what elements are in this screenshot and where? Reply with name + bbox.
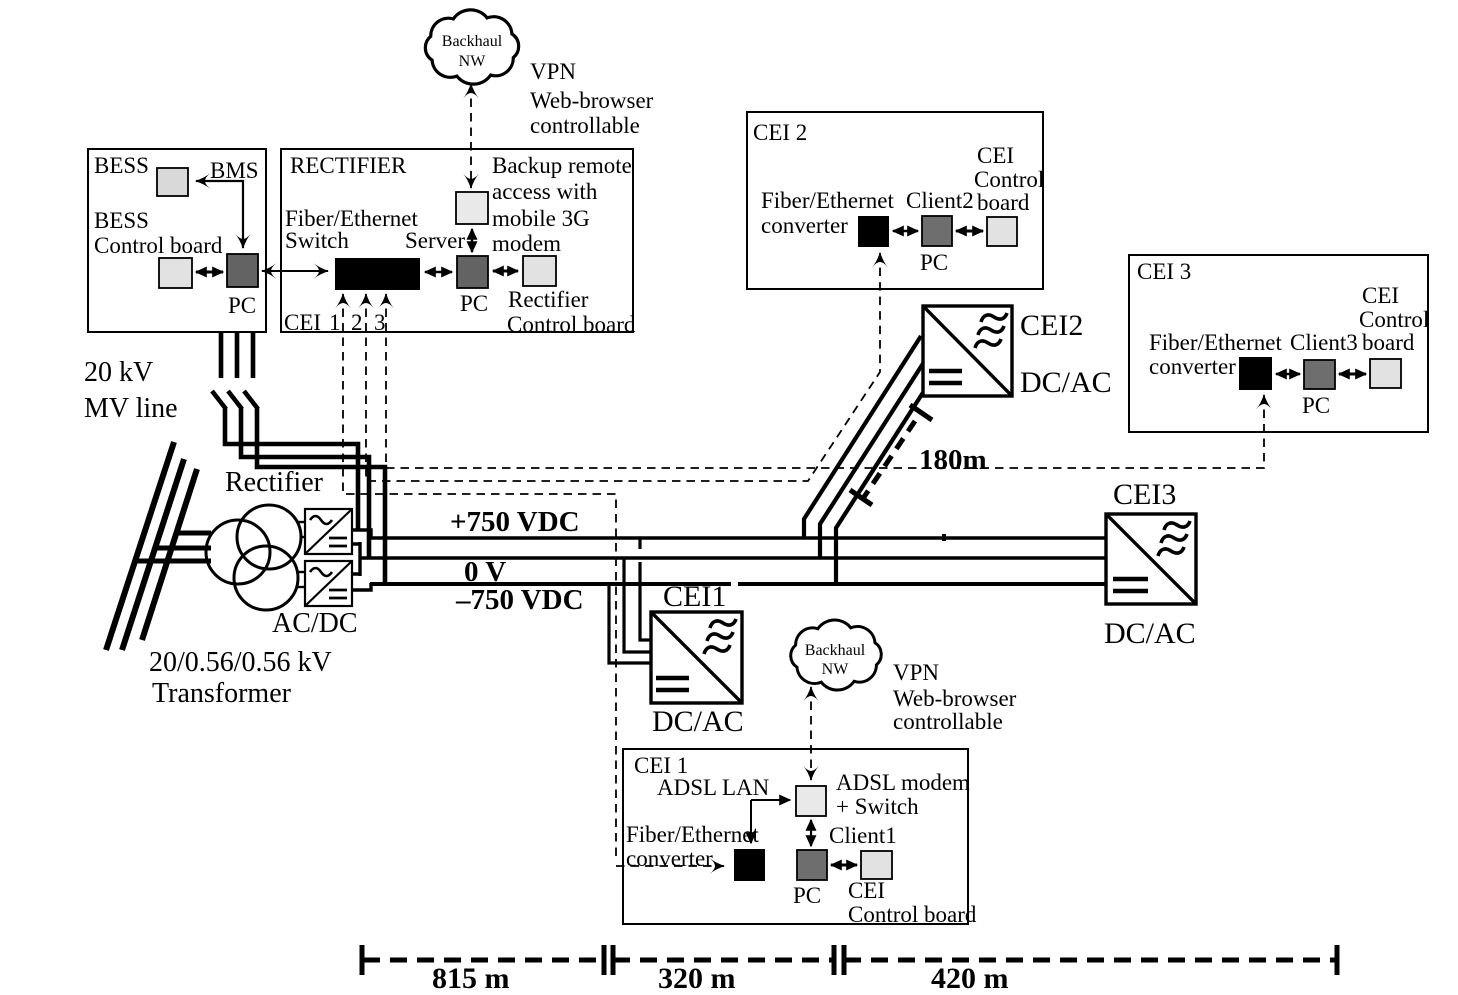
- svg-text:board: board: [977, 190, 1030, 215]
- svg-text:20 kV: 20 kV: [84, 357, 153, 388]
- arrow control board - PC: [196, 271, 223, 274]
- converter CEI1 body: [651, 612, 742, 703]
- bus -750 VDC (right part): [738, 582, 1107, 586]
- svg-text:Control board: Control board: [848, 902, 977, 927]
- measure 420 m line: [844, 958, 1337, 963]
- svg-text:controllable: controllable: [530, 113, 640, 138]
- svg-text:BESS: BESS: [94, 208, 149, 233]
- transformer winding secondary 1: [237, 505, 301, 569]
- MV line conductor 2: [122, 459, 184, 650]
- svg-text:MV line: MV line: [84, 393, 178, 424]
- server PC square: [457, 256, 488, 288]
- svg-text:DC/AC: DC/AC: [1020, 366, 1112, 399]
- MV tap stub 1: [174, 531, 211, 536]
- AC/DC converter 1 body: [305, 509, 352, 554]
- ADSL modem square: [796, 786, 826, 816]
- svg-text:Transformer: Transformer: [152, 678, 292, 709]
- AC/DC converter 2 body: [305, 561, 352, 606]
- BESS control board square: [159, 258, 192, 288]
- svg-text:board: board: [1362, 330, 1415, 355]
- 3G modem square: [456, 192, 488, 224]
- bus 0 V: [359, 556, 1107, 559]
- CEI2 feeder wire -: [836, 391, 924, 584]
- fiber/ethernet switch (black): [335, 258, 420, 290]
- arrow server - rectifier control board: [493, 270, 518, 273]
- transformer winding primary: [206, 520, 270, 584]
- arrow BESS PC - fiber switch: [262, 270, 328, 272]
- svg-text:AC/DC: AC/DC: [272, 608, 358, 639]
- junction tick on +750 bus: [942, 534, 946, 541]
- arrow client3 - board: [1339, 373, 1366, 376]
- svg-text:+ Switch: + Switch: [836, 794, 919, 819]
- CEI1 tap 0V: [624, 559, 652, 652]
- svg-text:converter: converter: [1149, 354, 1236, 379]
- fiber converter square (CEI3): [1239, 357, 1272, 390]
- arrow ADSL LAN down to fiber converter: [750, 800, 752, 843]
- comm line switch port1 to CEI1: [343, 294, 724, 866]
- svg-text:controllable: controllable: [893, 709, 1003, 734]
- svg-text:–750 VDC: –750 VDC: [455, 584, 584, 616]
- svg-text:PC: PC: [920, 250, 948, 275]
- svg-text:Switch: Switch: [285, 228, 349, 253]
- arrow modem - client1: [810, 820, 812, 846]
- cloud Backhaul NW (middle): [791, 620, 882, 690]
- rectifier control board square: [523, 256, 556, 286]
- svg-text:CEI: CEI: [977, 143, 1014, 168]
- bus -750 VDC (left part): [370, 582, 731, 586]
- dashed link cloud2 - ADSL modem: [810, 687, 812, 780]
- svg-text:Client3: Client3: [1290, 330, 1358, 355]
- svg-text:Backhaul: Backhaul: [805, 642, 866, 659]
- measure 180m tick bottom: [850, 490, 872, 505]
- svg-text:CEI 3: CEI 3: [1137, 259, 1191, 284]
- svg-text:+750 VDC: +750 VDC: [450, 506, 580, 538]
- svg-text:mobile 3G: mobile 3G: [492, 206, 590, 231]
- Client3 PC square: [1304, 360, 1335, 389]
- svg-text:Fiber/Ethernet: Fiber/Ethernet: [761, 188, 894, 213]
- CEI 1 enclosure box: [623, 749, 968, 924]
- battery module square: [157, 168, 188, 196]
- svg-text:815 m: 815 m: [432, 962, 510, 995]
- PC square (BESS): [227, 254, 258, 287]
- arrow server - modem: [471, 229, 473, 252]
- comm line switch port2 to CEI2: [366, 253, 880, 481]
- CEI control board square (CEI3): [1370, 359, 1401, 388]
- svg-text:Control: Control: [974, 167, 1044, 192]
- svg-text:VPN: VPN: [530, 59, 576, 84]
- svg-text:NW: NW: [822, 661, 850, 678]
- measure 180m tick top: [910, 405, 932, 420]
- svg-text:converter: converter: [761, 213, 848, 238]
- CEI2 feeder wire +: [804, 336, 921, 538]
- CEI1 tap -750: [609, 585, 652, 663]
- svg-text:Web-browser: Web-browser: [530, 88, 654, 113]
- Client1 PC square: [797, 850, 827, 880]
- CEI 3 enclosure box: [1129, 255, 1428, 432]
- svg-text:RECTIFIER: RECTIFIER: [290, 153, 407, 178]
- MV tap stub 3: [134, 559, 211, 564]
- svg-text:Control board: Control board: [94, 233, 223, 258]
- svg-text:Backup remote: Backup remote: [492, 153, 632, 178]
- MV tap stub 2: [153, 546, 211, 551]
- svg-text:Backhaul: Backhaul: [442, 33, 503, 50]
- svg-text:BMS: BMS: [210, 158, 259, 183]
- cloud Backhaul NW (top): [425, 10, 518, 84]
- svg-text:PC: PC: [228, 293, 256, 318]
- BESS feeder wire 1: [212, 332, 358, 531]
- transformer winding secondary 2: [234, 546, 298, 610]
- svg-text:Client1: Client1: [829, 823, 897, 848]
- arrow BMS to battery and down to PC: [196, 181, 243, 248]
- svg-text:320 m: 320 m: [658, 962, 736, 995]
- svg-text:Control: Control: [1359, 307, 1429, 332]
- svg-text:Fiber/Ethernet: Fiber/Ethernet: [1149, 330, 1282, 355]
- arrow ADSL LAN to modem: [751, 799, 790, 801]
- svg-text:1: 1: [329, 310, 341, 335]
- CEI1 tap +750 with hop: [640, 539, 652, 640]
- Client2 PC square: [922, 216, 952, 246]
- svg-text:Web-browser: Web-browser: [893, 686, 1017, 711]
- CEI2 feeder wire 0: [820, 362, 924, 558]
- svg-text:20/0.56/0.56 kV: 20/0.56/0.56 kV: [149, 647, 332, 678]
- svg-text:modem: modem: [492, 231, 561, 256]
- arrow client2 - board: [956, 230, 983, 233]
- svg-text:Control board: Control board: [507, 312, 636, 337]
- wire secondary1 to AC/DC 1: [297, 521, 306, 523]
- converter CEI3 body: [1106, 514, 1196, 604]
- CEI control board square (CEI2): [987, 217, 1017, 246]
- arrow client1 - board: [831, 864, 857, 867]
- measure 320 m line: [613, 958, 832, 963]
- MV line conductor 1: [106, 442, 174, 650]
- wire secondary2 to AC/DC 2: [296, 571, 306, 573]
- wire AC/DC1 neutral link: [352, 542, 360, 576]
- svg-text:Rectifier: Rectifier: [225, 467, 324, 498]
- arrow switch - server: [425, 271, 452, 274]
- svg-text:ADSL LAN: ADSL LAN: [657, 775, 770, 800]
- svg-text:ADSL modem: ADSL modem: [836, 770, 970, 795]
- measure 815 m line: [363, 958, 602, 963]
- svg-text:PC: PC: [460, 291, 488, 316]
- svg-text:3: 3: [374, 310, 386, 335]
- svg-text:NW: NW: [459, 53, 487, 70]
- BESS enclosure box: [88, 149, 266, 332]
- fiber converter square (CEI2): [858, 216, 889, 247]
- svg-text:CEI3: CEI3: [1113, 478, 1176, 511]
- arrow fiber - client3: [1276, 373, 1300, 375]
- comm line switch port3 to CEI3: [386, 294, 1264, 468]
- svg-text:Rectifier: Rectifier: [508, 287, 589, 312]
- svg-text:420 m: 420 m: [931, 962, 1009, 995]
- svg-text:CEI: CEI: [1362, 283, 1399, 308]
- CEI control board square (CEI1): [861, 851, 892, 879]
- BESS feeder wire 3: [244, 332, 385, 584]
- svg-text:2: 2: [351, 310, 363, 335]
- svg-text:Fiber/Ethernet: Fiber/Ethernet: [626, 822, 759, 847]
- svg-text:CEI: CEI: [284, 310, 321, 335]
- svg-text:converter: converter: [626, 846, 713, 871]
- svg-text:Server: Server: [405, 228, 465, 253]
- svg-text:CEI 2: CEI 2: [753, 120, 807, 145]
- svg-text:PC: PC: [793, 883, 821, 908]
- wire AC/DC1 plus to bus: [352, 530, 371, 537]
- svg-text:DC/AC: DC/AC: [1104, 617, 1196, 650]
- arrow fiber - client2: [893, 230, 918, 232]
- RECTIFIER enclosure box: [281, 149, 633, 332]
- dashed link cloud - 3G modem: [470, 84, 472, 188]
- CEI 2 enclosure box: [747, 112, 1043, 289]
- MV line conductor 3: [142, 469, 197, 640]
- svg-text:BESS: BESS: [94, 153, 149, 178]
- svg-text:VPN: VPN: [893, 660, 939, 685]
- svg-text:Client2: Client2: [906, 188, 974, 213]
- svg-text:CEI2: CEI2: [1020, 309, 1083, 342]
- svg-text:PC: PC: [1302, 393, 1330, 418]
- svg-text:CEI: CEI: [848, 878, 885, 903]
- bus +750 VDC: [370, 536, 1107, 540]
- BESS feeder wire 2: [228, 332, 369, 558]
- svg-text:access with: access with: [492, 179, 598, 204]
- svg-text:DC/AC: DC/AC: [652, 705, 744, 738]
- wire AC/DC2 minus to bus: [352, 583, 371, 590]
- svg-text:180m: 180m: [919, 444, 987, 476]
- svg-text:CEI1: CEI1: [663, 580, 726, 613]
- fiber converter square (CEI1): [734, 849, 765, 881]
- measure 180m dashed line: [864, 421, 915, 497]
- converter CEI2 body: [923, 306, 1012, 396]
